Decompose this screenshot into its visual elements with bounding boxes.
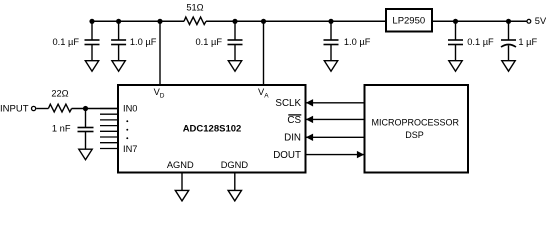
svg-text:0.1 µF: 0.1 µF [467, 37, 494, 47]
ground [228, 61, 241, 71]
capacitor C6 1uF polarized [501, 21, 538, 60]
ground [175, 190, 188, 201]
pin stub IN1 [100, 113, 118, 115]
svg-text:AGND: AGND [167, 160, 194, 170]
wire VD from rail to ADC [159, 21, 161, 85]
node 5V terminal [527, 16, 546, 26]
ground [85, 61, 98, 71]
wire resistor to IN0 [72, 108, 118, 110]
wire CS [306, 116, 365, 123]
wire DOUT [307, 151, 365, 158]
svg-text:SCLK: SCLK [275, 98, 301, 109]
wire SCLK [306, 99, 365, 106]
pin stub IN0 [100, 108, 118, 110]
regulator U1 LP2950 [386, 9, 432, 32]
svg-text:DGND: DGND [221, 160, 249, 170]
capacitor C1 0.1uF [52, 21, 99, 60]
pin stub IN4 [100, 130, 118, 132]
ground [502, 61, 515, 71]
wire power rail mid segment [206, 20, 386, 22]
ground [324, 61, 337, 71]
svg-text:ADC128S102: ADC128S102 [183, 124, 242, 135]
microprocessor U3 box [365, 85, 469, 173]
pin stub IN6 [100, 142, 118, 144]
wire DIN [306, 134, 365, 141]
wire input to resistor [36, 108, 48, 110]
svg-text:1.0 µF: 1.0 µF [130, 37, 157, 47]
pin stub IN5 [100, 136, 118, 138]
pin ellipsis dots [126, 120, 128, 139]
capacitor C2 1.0uF [111, 21, 157, 60]
svg-text:1 µF: 1 µF [518, 37, 537, 47]
resistor R1 51ohm [184, 3, 206, 25]
svg-text:DOUT: DOUT [273, 150, 301, 161]
svg-text:22Ω: 22Ω [51, 89, 68, 99]
svg-text:LP2950: LP2950 [392, 16, 425, 27]
svg-text:5V: 5V [535, 16, 546, 26]
svg-text:51Ω: 51Ω [186, 3, 203, 13]
svg-text:DSP: DSP [405, 130, 424, 140]
junction dot node 1 [89, 19, 94, 24]
junction dot input node [83, 106, 88, 111]
junction dot node 2 [116, 19, 121, 24]
svg-text:0.1 µF: 0.1 µF [195, 37, 222, 47]
pin stub IN7 [100, 148, 118, 150]
junction dot node 6 [506, 19, 511, 24]
junction dot node 4 [328, 19, 333, 24]
svg-text:CS: CS [287, 115, 301, 126]
ground [112, 61, 125, 71]
ground [79, 149, 92, 160]
svg-text:DIN: DIN [284, 132, 301, 143]
svg-text:IN0: IN0 [123, 104, 137, 114]
pin label CS with overline [287, 115, 301, 126]
svg-text:1.0 µF: 1.0 µF [344, 37, 371, 47]
svg-text:1 nF: 1 nF [52, 123, 71, 133]
wire power rail right segment [432, 20, 527, 22]
ground [228, 190, 241, 201]
svg-text:0.1 µF: 0.1 µF [52, 37, 79, 47]
junction dot node 3 [232, 19, 237, 24]
wire VA from rail to ADC [263, 21, 265, 85]
svg-text:INPUT: INPUT [0, 104, 29, 115]
pin stub IN3 [100, 125, 118, 127]
ADC U2 ADC128S102 box [118, 85, 306, 173]
junction dot node VA [261, 19, 266, 24]
junction dot node VD [157, 19, 162, 24]
wire DGND to ground [234, 173, 236, 191]
capacitor C4 1.0uF [324, 21, 371, 60]
wire AGND to ground [181, 173, 183, 191]
node INPUT terminal [0, 104, 36, 115]
capacitor C7 1nF [52, 109, 94, 149]
svg-text:MICROPROCESSOR: MICROPROCESSOR [372, 118, 460, 128]
wire power rail left segment [92, 20, 184, 22]
resistor R2 22ohm [48, 89, 71, 112]
ground [449, 61, 462, 71]
pin stub IN2 [100, 119, 118, 121]
junction dot node 5 [453, 19, 458, 24]
capacitor C5 0.1uF [448, 21, 494, 60]
capacitor C3 0.1uF [195, 21, 242, 60]
svg-text:IN7: IN7 [123, 144, 137, 154]
